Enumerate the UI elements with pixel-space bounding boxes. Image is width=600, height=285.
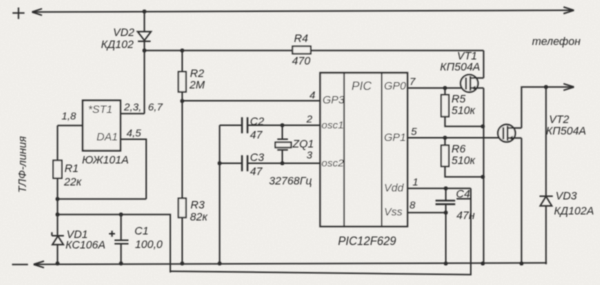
pin 1,8 wire DA1 left <box>58 111 83 126</box>
wire VD3 cathode column <box>545 87 547 196</box>
capacitor C3 47 <box>242 152 265 178</box>
wire R6 bottom to source column <box>445 166 483 177</box>
wire R2 top stub <box>181 51 183 72</box>
pin 8 label <box>410 200 416 212</box>
transistor VT2 КП504А <box>498 114 586 142</box>
node VD2 / supply rail <box>142 49 146 53</box>
wire Vdd to corner <box>407 187 470 189</box>
wire top rail <box>32 10 574 12</box>
wire R2 bottom to node <box>181 92 183 101</box>
wire VD1 to bottom rail <box>57 245 59 264</box>
arrow left bottom <box>34 261 44 268</box>
node R3 bottom rail <box>180 262 184 266</box>
node C1 top <box>119 213 123 217</box>
wire R3 bottom <box>181 218 183 264</box>
wire GP1 to VT2 gate <box>407 137 503 139</box>
node R5 to source column <box>481 124 485 128</box>
wire bottom rail <box>34 263 547 265</box>
node VD1 / Vdd branch <box>56 213 60 217</box>
resistor R3 82к <box>178 198 208 223</box>
resistor R1 22к <box>53 160 82 188</box>
wire osc1 line <box>220 124 321 126</box>
node C2C3 ground bottom rail <box>218 262 222 266</box>
minus terminal mark <box>12 264 28 266</box>
node R6 top <box>443 136 447 140</box>
node ZQ1 bottom <box>280 161 284 165</box>
node C4 bottom rail <box>444 262 448 266</box>
wire VD2 anode <box>143 12 145 32</box>
arrow left top <box>32 9 42 16</box>
wire R3 top <box>181 101 183 198</box>
node VD1 bottom rail <box>56 262 60 266</box>
node C4 top <box>444 186 448 190</box>
resistor R5 510к <box>441 88 476 117</box>
arrow right top (to telephone) <box>564 7 575 14</box>
node C1 bottom rail <box>119 262 123 266</box>
wire VT2 source to bottom rail <box>521 138 523 264</box>
capacitor C2 47 <box>242 116 264 142</box>
resistor R4 470 <box>292 33 311 68</box>
wire GP3 to PIC pin 4 <box>182 100 320 102</box>
wire C2 C3 ground column <box>219 125 221 263</box>
wire C1 bottom <box>120 244 122 264</box>
pin 2 label <box>306 114 313 126</box>
wire Vss pin 8 <box>407 212 445 214</box>
pin 1 label <box>413 177 419 189</box>
pin 4 label <box>310 90 316 102</box>
wire supply rail y50 <box>144 50 483 52</box>
wire second rail Vdd line <box>170 188 471 274</box>
wire osc2 line <box>220 162 321 164</box>
wire R1 bottom / VD1 column <box>57 178 59 236</box>
diode VD3 КД102А <box>540 191 594 218</box>
node R5 top <box>443 86 447 90</box>
node VT2 source bottom rail <box>520 262 524 266</box>
node Vss C4 <box>444 211 448 215</box>
crystal ZQ1 32768Гц <box>269 125 314 187</box>
wire VT2 drain up and right to output <box>522 87 575 128</box>
node ТЛФ-линия label <box>17 136 29 193</box>
pin 2,3,6,7 wire DA1 top right <box>120 102 163 114</box>
wire GP0 to VT1 gate <box>407 87 466 89</box>
node R6 to source column <box>481 175 485 179</box>
wire VD3 anode to bottom rail <box>545 206 548 264</box>
op-amp U1 PIC12F629 box <box>320 73 407 248</box>
pin 5 label <box>411 126 417 138</box>
wire VT1 source column to bottom rail <box>483 88 485 264</box>
node R2/R3/GP3 <box>180 99 184 103</box>
op-amp DA1 ЮЖ101А box <box>82 100 129 166</box>
diode VD2 КД102 <box>101 27 151 51</box>
resistor R2 2M <box>178 68 205 92</box>
zener VD1 КС106А <box>52 229 106 252</box>
wire R1 top <box>57 126 59 161</box>
node ZQ1 top <box>280 123 284 127</box>
node R2 top <box>180 49 184 53</box>
resistor R6 510к <box>441 138 476 167</box>
node R1/DA1 pins 4,5 <box>56 197 60 201</box>
wire VD2 cathode to node <box>143 41 145 113</box>
transistor VT1 КП504А <box>440 51 484 93</box>
capacitor C1 100,0 <box>109 215 163 251</box>
node C3 ground <box>218 161 222 165</box>
wire DA1 4,5 to R1 node <box>58 198 147 200</box>
wire Vdd branch to C1 and corner <box>58 215 171 273</box>
pin 3 label <box>307 150 313 162</box>
arrow right middle (to telephone) <box>564 84 575 91</box>
wire R5 bottom to VT1 source line <box>445 117 483 127</box>
capacitor C4 47н <box>436 188 475 263</box>
node VT1 source bottom rail <box>481 262 485 266</box>
node телефон label <box>532 36 581 48</box>
wire VT1 drain to supply rail <box>483 51 485 79</box>
node VD3 top <box>544 85 548 89</box>
node top rail / VD2 junction <box>142 10 146 14</box>
pin 4,5 wire DA1 bottom right <box>120 128 146 200</box>
pin 7 label <box>410 76 417 88</box>
plus terminal mark <box>13 8 25 20</box>
